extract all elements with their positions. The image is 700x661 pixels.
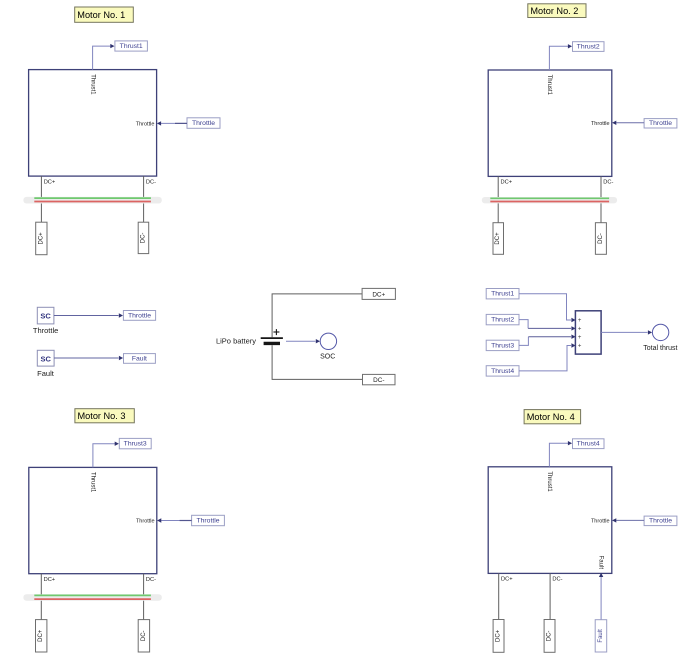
port label Throttle (motor 1)	[136, 121, 155, 127]
goto tag Fault (motor 4)	[595, 620, 607, 652]
signal editor Throttle (SC)	[37, 307, 54, 324]
wire DC- (motor 4)	[549, 573, 551, 619]
wire Thrust2 out (motor 2)	[549, 44, 572, 70]
wire battery top	[272, 294, 362, 337]
svg-text:Motor No. 4: Motor No. 4	[527, 412, 575, 422]
wire Thrust4 out (motor 4)	[549, 441, 572, 467]
annotation label "Motor No. 4"	[524, 410, 581, 424]
svg-text:Fault: Fault	[132, 355, 147, 362]
svg-text:Thrust1: Thrust1	[546, 471, 552, 492]
port label DC+ (motor 3)	[44, 577, 56, 583]
svg-text:DC-: DC-	[140, 233, 146, 244]
wire DC- (motor 3)	[143, 574, 145, 620]
annotation label "Motor No. 2"	[528, 4, 586, 18]
svg-text:DC+: DC+	[44, 577, 56, 583]
svg-text:+: +	[578, 327, 582, 333]
port label Thrust1 (motor 1)	[89, 74, 95, 95]
svg-text:DC+: DC+	[372, 291, 385, 298]
svg-text:Motor No. 3: Motor No. 3	[78, 411, 126, 421]
from Throttle (motor 3)	[192, 515, 225, 525]
from Thrust4	[486, 366, 519, 376]
battery LiPo plates	[261, 338, 283, 343]
goto Thrust4	[573, 439, 605, 449]
svg-text:Motor No. 2: Motor No. 2	[530, 6, 578, 16]
svg-text:Thrust1: Thrust1	[90, 472, 96, 493]
goto Thrust2	[573, 42, 605, 52]
svg-text:DC+: DC+	[501, 577, 513, 583]
svg-text:Fault: Fault	[598, 629, 604, 643]
svg-text:DC-: DC-	[552, 577, 562, 583]
svg-text:Thrust2: Thrust2	[577, 44, 600, 51]
label Throttle under SC	[33, 326, 58, 335]
power rail band (motor 1)	[23, 197, 161, 204]
svg-text:DC+: DC+	[38, 232, 44, 245]
wire SOC signal	[286, 339, 320, 343]
svg-text:Throttle: Throttle	[649, 120, 672, 127]
connection tag DC+ (motor 2)	[493, 223, 504, 255]
power rail band (motor 3)	[23, 594, 161, 601]
battery + sign	[273, 329, 279, 335]
wire Thrust2 to sum	[519, 320, 576, 331]
svg-text:Throttle: Throttle	[591, 518, 610, 524]
wire Throttle SC to goto	[54, 313, 123, 317]
green rail (motor 1)	[34, 197, 151, 199]
port label Throttle (motor 4)	[591, 518, 610, 524]
subsystem Motor No. 3	[29, 467, 157, 573]
from Throttle (motor 1)	[187, 118, 220, 129]
connection port DC+ (battery)	[362, 288, 395, 299]
port label Throttle (motor 2)	[591, 121, 610, 127]
wire Throttle in (motor 3)	[157, 518, 192, 522]
wire DC+ (motor 2)	[497, 176, 499, 222]
port label Thrust1 (motor 3)	[90, 472, 96, 493]
red rail (motor 1)	[34, 201, 151, 203]
green rail (motor 3)	[34, 594, 151, 596]
svg-text:Throttle: Throttle	[591, 121, 610, 127]
svg-text:DC+: DC+	[501, 180, 513, 186]
svg-text:Fault: Fault	[598, 556, 604, 570]
subsystem Motor No. 2	[488, 70, 612, 176]
annotation label "Motor No. 3"	[75, 409, 134, 423]
wire Fault out (motor 4)	[599, 573, 603, 620]
scope SOC circle	[320, 333, 336, 349]
connection tag DC- (motor 2)	[595, 223, 606, 255]
port label DC- (motor 2)	[603, 180, 613, 186]
svg-text:SC: SC	[40, 312, 51, 321]
svg-text:Thrust4: Thrust4	[491, 368, 514, 375]
scope Total thrust circle	[652, 324, 668, 340]
wire Fault SC to goto	[54, 356, 123, 360]
green rail (motor 2)	[490, 197, 609, 199]
wire Thrust1 to sum	[519, 294, 576, 322]
svg-text:Throttle: Throttle	[136, 121, 155, 127]
wire Thrust1 out (motor 1)	[93, 44, 115, 70]
sum block (Add)	[575, 311, 601, 354]
connection tag DC+ (motor 3)	[36, 620, 47, 652]
svg-text:DC+: DC+	[495, 232, 501, 245]
wire DC- (motor 1)	[143, 176, 145, 222]
svg-text:SC: SC	[40, 354, 51, 363]
connection port DC- (battery)	[363, 374, 396, 384]
svg-text:DC-: DC-	[603, 180, 613, 186]
wire DC+ (motor 3)	[40, 574, 42, 620]
svg-text:Throttle: Throttle	[649, 518, 672, 525]
label Total thrust	[643, 345, 677, 352]
svg-text:Thrust1: Thrust1	[491, 291, 514, 298]
goto Thrust3	[119, 438, 151, 448]
power rail band (motor 2)	[482, 197, 617, 203]
from Throttle (motor 2)	[644, 119, 677, 128]
svg-text:Total thrust: Total thrust	[643, 345, 677, 352]
svg-text:Motor No. 1: Motor No. 1	[77, 10, 125, 20]
wire Thrust4 to sum	[519, 343, 576, 371]
connection tag DC+ (motor 4)	[493, 620, 504, 653]
port label Throttle (motor 3)	[136, 519, 155, 525]
port label Thrust1 (motor 4)	[546, 471, 552, 492]
wire DC+ (motor 4)	[498, 573, 500, 619]
svg-text:DC+: DC+	[496, 629, 502, 642]
svg-text:Thrust1: Thrust1	[546, 75, 552, 96]
connection tag DC+ (motor 1)	[36, 222, 47, 255]
goto Fault	[124, 354, 156, 364]
wire Thrust3 to sum	[519, 335, 576, 346]
svg-text:Thrust1: Thrust1	[120, 43, 143, 50]
port label DC+ (motor 4)	[501, 577, 513, 583]
svg-text:LiPo battery: LiPo battery	[216, 337, 256, 346]
svg-text:DC+: DC+	[38, 629, 44, 642]
connection tag DC- (motor 3)	[138, 620, 149, 652]
goto Throttle	[123, 311, 155, 321]
annotation label "Motor No. 1"	[75, 7, 134, 22]
port label Fault (motor 4)	[598, 556, 604, 570]
port label DC+ (motor 1)	[44, 179, 56, 185]
svg-text:Thrust1: Thrust1	[89, 74, 95, 95]
svg-text:Thrust2: Thrust2	[491, 317, 514, 324]
svg-text:Thrust3: Thrust3	[124, 441, 147, 448]
svg-text:Throttle: Throttle	[196, 517, 219, 524]
red rail (motor 2)	[490, 201, 609, 203]
from Thrust3	[486, 340, 519, 350]
label Fault under SC	[37, 369, 55, 378]
wire Throttle in (motor 1)	[157, 121, 187, 125]
svg-text:Throttle: Throttle	[192, 120, 215, 127]
svg-text:Throttle: Throttle	[136, 519, 155, 525]
wire Throttle in (motor 4)	[612, 518, 644, 522]
wire DC- (motor 2)	[600, 176, 602, 222]
svg-text:+: +	[578, 318, 582, 324]
wire DC+ (motor 1)	[40, 176, 42, 222]
svg-text:DC-: DC-	[373, 377, 384, 384]
svg-text:DC-: DC-	[141, 630, 147, 641]
svg-text:+: +	[578, 335, 582, 341]
wire Thrust3 out (motor 3)	[93, 442, 119, 468]
svg-text:Thrust3: Thrust3	[491, 342, 514, 349]
red rail (motor 3)	[34, 598, 151, 600]
port label DC- (motor 3)	[146, 577, 156, 583]
wire sum to Total thrust	[601, 330, 652, 334]
port label DC+ (motor 2)	[501, 180, 513, 186]
svg-text:SOC: SOC	[320, 353, 335, 360]
wire battery bottom	[272, 345, 362, 379]
svg-text:Throttle: Throttle	[128, 312, 151, 319]
label LiPo battery	[216, 337, 256, 346]
port label DC- (motor 4)	[552, 577, 562, 583]
connection tag DC- (motor 4)	[544, 620, 555, 653]
svg-text:DC-: DC-	[146, 577, 156, 583]
label SOC	[320, 353, 335, 360]
svg-text:DC-: DC-	[146, 179, 156, 185]
svg-text:Thrust4: Thrust4	[577, 441, 600, 448]
port label DC- (motor 1)	[146, 179, 156, 185]
from Thrust1	[486, 289, 519, 299]
svg-text:DC-: DC-	[547, 631, 553, 642]
svg-text:DC-: DC-	[598, 233, 604, 244]
wire Throttle in (motor 2)	[612, 121, 644, 125]
svg-text:+: +	[578, 344, 582, 350]
goto Thrust1	[115, 41, 147, 51]
svg-text:DC+: DC+	[44, 179, 56, 185]
svg-text:Fault: Fault	[37, 369, 55, 378]
port label Thrust1 (motor 2)	[546, 75, 552, 96]
subsystem Motor No. 1	[29, 70, 157, 177]
from Throttle (motor 4)	[644, 516, 677, 526]
subsystem Motor No. 4	[488, 467, 612, 574]
from Thrust2	[486, 314, 519, 324]
connection tag DC- (motor 1)	[138, 222, 149, 253]
svg-text:Throttle: Throttle	[33, 326, 58, 335]
signal editor Fault (SC)	[37, 350, 54, 366]
